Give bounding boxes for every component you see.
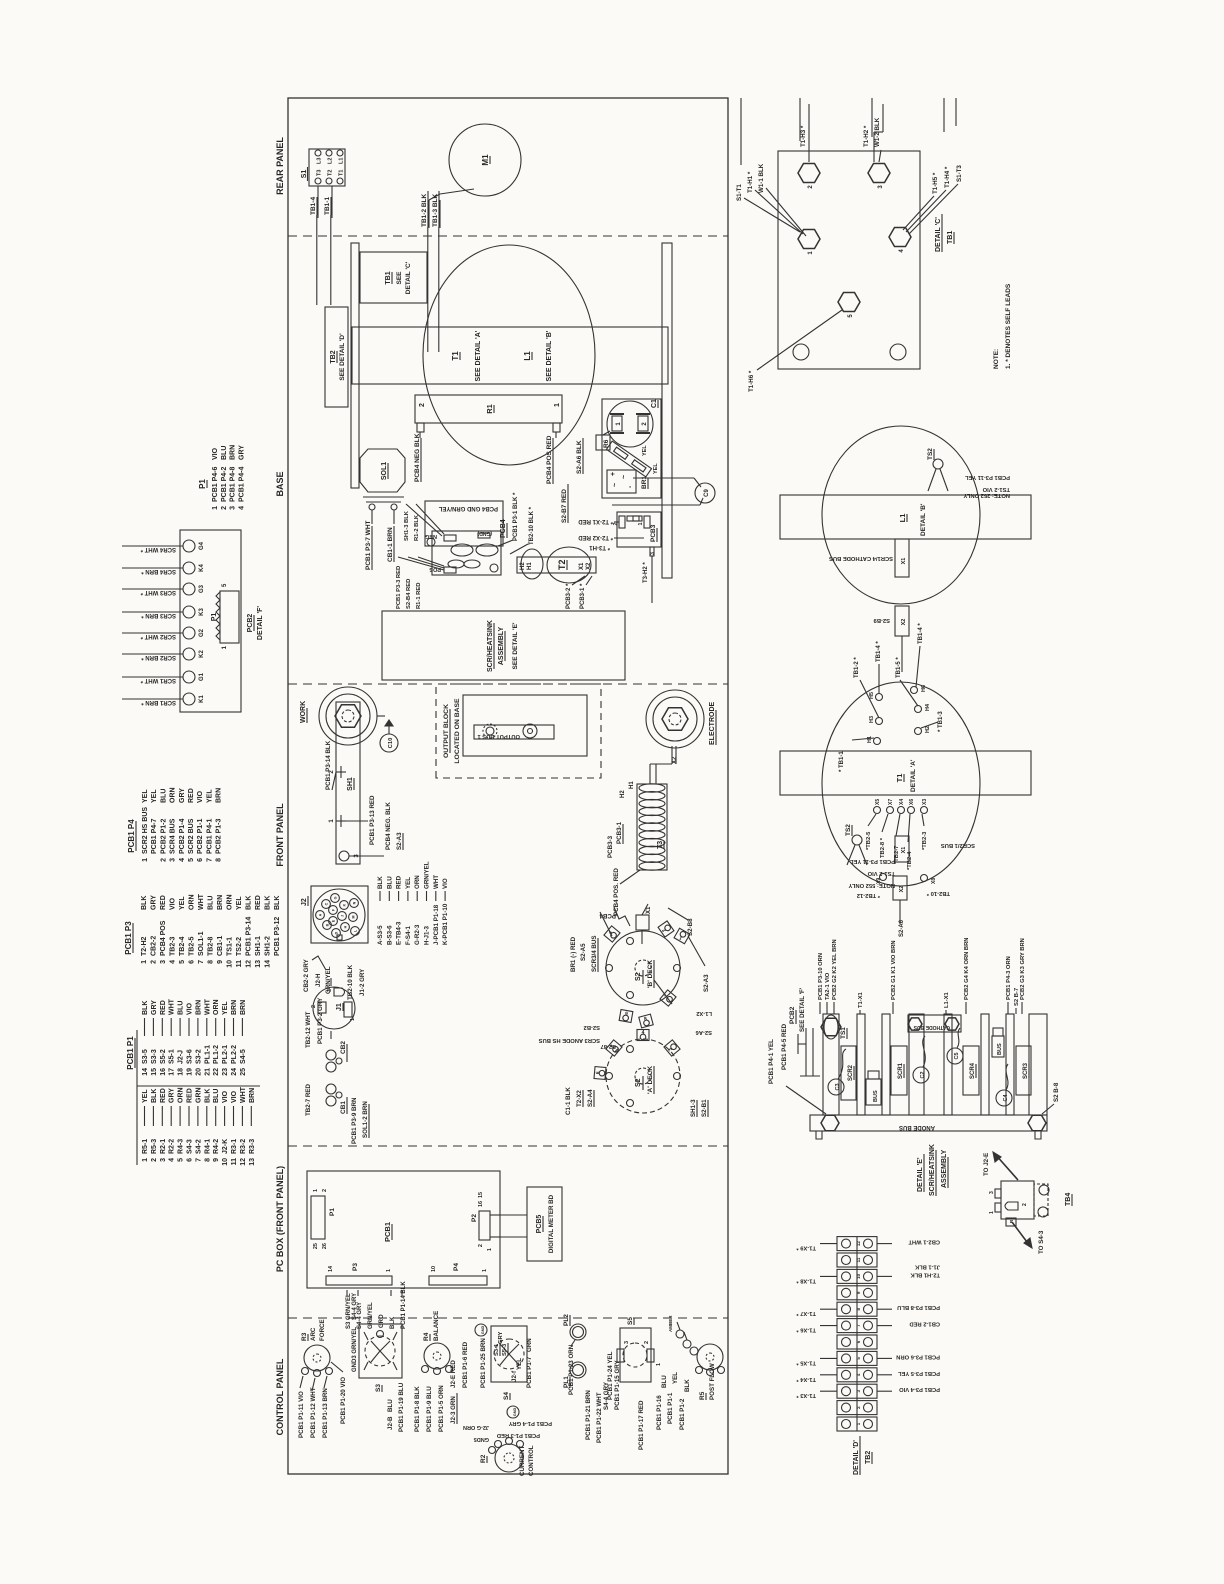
svg-text:NOTE:: NOTE: <box>993 349 1000 369</box>
svg-text:10: 10 <box>222 1158 229 1166</box>
svg-text:G-R2-3: G-R2-3 <box>414 924 421 945</box>
svg-text:J2-E RED: J2-E RED <box>450 1360 457 1388</box>
T1 detail X labels <box>866 814 928 870</box>
svg-text:T3-H2 *: T3-H2 * <box>643 562 649 583</box>
terminal block TB1 detail C <box>778 151 920 369</box>
connector PCB2 detail F <box>122 530 264 712</box>
svg-text:RED: RED <box>396 875 403 889</box>
T1 detail H terminals <box>867 685 931 745</box>
label PCB1 P3-3 RED <box>396 557 444 609</box>
label SH1-3 <box>690 1099 708 1117</box>
svg-text:BLU: BLU <box>208 896 215 910</box>
svg-text:PCB2 P1-1: PCB2 P1-1 <box>197 818 204 854</box>
svg-text:RED: RED <box>187 1088 194 1103</box>
svg-text:CB1-2 RED: CB1-2 RED <box>909 1321 940 1327</box>
svg-text:YEL: YEL <box>142 1089 149 1103</box>
svg-text:CURRENT: CURRENT <box>519 1446 526 1476</box>
svg-text:PCB3-1: PCB3-1 <box>616 821 623 844</box>
svg-text:1: 1 <box>656 1363 662 1366</box>
svg-text:TB1-4 *: TB1-4 * <box>918 623 924 644</box>
svg-text:PC BOX (FRONT PANEL): PC BOX (FRONT PANEL) <box>275 1166 285 1272</box>
svg-text:18: 18 <box>178 1068 185 1076</box>
svg-text:CB2: CB2 <box>340 1041 347 1054</box>
svg-text:PCB1 P1-25 BRN: PCB1 P1-25 BRN <box>480 1338 487 1388</box>
svg-text:ELECTRODE: ELECTRODE <box>709 702 716 746</box>
resistor R6 <box>603 439 659 477</box>
svg-text:BLU: BLU <box>213 1089 220 1103</box>
svg-text:S3-5: S3-5 <box>142 1049 149 1064</box>
svg-text:23: 23 <box>222 1068 229 1076</box>
svg-text:T1-H4 *: T1-H4 * <box>944 166 951 188</box>
resistor R1 <box>415 395 562 438</box>
svg-text:YEL: YEL <box>222 1001 229 1015</box>
terminal block TB2 base <box>325 307 348 407</box>
svg-text:S2-B9: S2-B9 <box>873 617 890 623</box>
svg-text:X1: X1 <box>646 906 652 914</box>
svg-text:20: 20 <box>195 1068 202 1076</box>
svg-text:2: 2 <box>478 1244 484 1247</box>
svg-text:2: 2 <box>151 1158 158 1162</box>
svg-text:4: 4 <box>169 1158 176 1162</box>
svg-text:2: 2 <box>322 1189 328 1192</box>
svg-text:S5: S5 <box>627 1317 634 1325</box>
pcb PCB3 <box>613 512 661 603</box>
svg-text:S3: S3 <box>375 1384 382 1392</box>
svg-text:PCB4 POS RED: PCB4 POS RED <box>546 435 553 484</box>
svg-text:1: 1 <box>142 858 149 862</box>
label PCB1 P3-7 WHT <box>365 520 372 570</box>
breaker CB2 <box>305 997 347 1072</box>
svg-text:CB1: CB1 <box>340 1101 347 1114</box>
svg-text:C3: C3 <box>835 1083 841 1090</box>
svg-text:SH1-2: SH1-2 <box>265 936 272 956</box>
svg-text:CB2-1 WHT: CB2-1 WHT <box>908 1239 940 1245</box>
svg-text:TO S4-3: TO S4-3 <box>1038 1230 1045 1254</box>
svg-text:BLU: BLU <box>661 1375 668 1388</box>
svg-text:C5: C5 <box>954 1052 960 1059</box>
svg-text:S2-A6 BLK: S2-A6 BLK <box>576 440 583 474</box>
svg-text:SEE: SEE <box>396 271 403 285</box>
svg-text:C9: C9 <box>704 489 710 497</box>
svg-text:BASE: BASE <box>275 471 285 496</box>
label T1-H6 <box>748 310 842 392</box>
svg-text:GND5: GND5 <box>474 1436 489 1442</box>
inductor L1 detail B <box>780 426 1031 604</box>
svg-text:16: 16 <box>160 1068 167 1076</box>
svg-text:PCB1 P3-3 RED: PCB1 P3-3 RED <box>396 566 402 609</box>
svg-text:PCB2 P1-4: PCB2 P1-4 <box>179 818 186 854</box>
svg-text:P3: P3 <box>352 1263 359 1271</box>
capacitor C10 <box>377 716 398 752</box>
svg-text:SCR2 BRN *: SCR2 BRN * <box>141 654 176 660</box>
svg-text:J1-2 GRY: J1-2 GRY <box>359 968 366 996</box>
svg-text:GRN: GRN <box>526 1338 533 1352</box>
svg-text:H5: H5 <box>869 692 875 699</box>
label TB1-2 BLK <box>421 191 428 352</box>
label BR1 wires <box>570 936 598 972</box>
wire table PCB1 P3 <box>124 893 281 967</box>
svg-text:BRN: BRN <box>216 788 223 803</box>
svg-text:6: 6 <box>189 960 196 964</box>
svg-text:21: 21 <box>204 1068 211 1076</box>
terminal X1 T3 <box>636 904 649 944</box>
svg-text:H2: H2 <box>520 562 526 570</box>
svg-text:G2: G2 <box>199 628 205 637</box>
label PCB1 P3-14 BLK <box>325 740 336 790</box>
svg-text:CB2-2 GRY: CB2-2 GRY <box>303 958 310 992</box>
svg-text:BLK: BLK <box>265 896 272 910</box>
wire table PCB1 P4 <box>127 787 223 861</box>
svg-text:OUTPUT BUS 1: OUTPUT BUS 1 <box>477 733 520 739</box>
svg-text:BRN: BRN <box>195 1000 202 1015</box>
svg-text:R5-3: R5-3 <box>151 1139 158 1154</box>
svg-text:T1: T1 <box>339 170 345 176</box>
svg-text:POST FLOW: POST FLOW <box>709 1363 716 1400</box>
svg-text:SH1-3: SH1-3 <box>690 1099 697 1117</box>
svg-text:X2: X2 <box>586 562 592 570</box>
svg-text:PCB1 P3-13 RED: PCB1 P3-13 RED <box>369 795 376 845</box>
rectifier BR1 <box>607 470 648 493</box>
svg-text:C1: C1 <box>651 399 658 408</box>
wire M1 leads <box>429 189 474 228</box>
svg-text:PCB1 P4: PCB1 P4 <box>127 819 136 853</box>
svg-text:PCB2 P1-3: PCB2 P1-3 <box>216 818 223 854</box>
svg-text:PCB4: PCB4 <box>599 912 616 919</box>
svg-text:TB1: TB1 <box>947 231 954 244</box>
svg-text:10: 10 <box>227 960 234 968</box>
svg-text:L1-X1: L1-X1 <box>944 991 950 1008</box>
label S4 wires <box>450 1332 533 1388</box>
label R4 wires <box>414 1385 457 1432</box>
svg-text:14: 14 <box>142 1068 149 1076</box>
svg-text:RED: RED <box>160 1088 167 1103</box>
svg-text:SCR3 BRN *: SCR3 BRN * <box>141 612 176 618</box>
svg-text:BLK: BLK <box>142 1001 149 1015</box>
svg-text:PCB3-1 *: PCB3-1 * <box>580 583 586 609</box>
label S2-A3 <box>600 912 710 1004</box>
svg-text:PCB1 P1-15 GRY: PCB1 P1-15 GRY <box>614 1359 621 1410</box>
thermostat TS2 T1 <box>845 824 895 888</box>
svg-text:S5-2: S5-2 <box>160 1049 167 1064</box>
svg-text:BLK: BLK <box>390 1316 396 1329</box>
svg-text:14: 14 <box>328 1265 334 1272</box>
svg-text:3: 3 <box>230 506 237 510</box>
svg-text:YEL: YEL <box>653 463 659 474</box>
label PCB1 P3-1 BLK <box>498 492 535 554</box>
svg-text:SCR2 BUS: SCR2 BUS <box>188 818 195 854</box>
svg-text:2: 2 <box>419 403 426 407</box>
svg-text:P4: P4 <box>453 1263 460 1271</box>
svg-text:TB2: TB2 <box>865 1451 872 1464</box>
svg-text:TB1-4 *: TB1-4 * <box>876 641 882 662</box>
svg-text:SCR4 BUS: SCR4 BUS <box>170 818 177 854</box>
svg-text:K-PCB1 P1-10: K-PCB1 P1-10 <box>442 903 449 945</box>
svg-text:T1-X1: T1-X1 <box>858 991 864 1008</box>
label PCB4 NEG S2-A3 <box>349 802 403 856</box>
svg-text:1: 1 <box>989 1211 995 1214</box>
svg-text:DETAIL 'C': DETAIL 'C' <box>935 217 942 252</box>
svg-text:* TB1-3: * TB1-3 <box>938 711 944 732</box>
capacitor C3 detail E <box>828 1049 846 1095</box>
svg-text:R3-2: R3-2 <box>240 1139 247 1154</box>
svg-text:R6: R6 <box>603 439 610 448</box>
transformer T1/L1 band <box>352 327 668 384</box>
svg-text:S2-B4 RED: S2-B4 RED <box>406 579 412 609</box>
label PCB4 NEG BLK <box>414 433 421 482</box>
svg-text:BALANCE: BALANCE <box>433 1311 440 1341</box>
svg-text:CB2-2: CB2-2 <box>151 936 158 956</box>
svg-text:ORN: ORN <box>414 875 421 889</box>
svg-text:S2-B1: S2-B1 <box>701 1099 708 1117</box>
svg-text:PL2-1: PL2-1 <box>222 1045 229 1064</box>
svg-text:2: 2 <box>221 506 228 510</box>
svg-text:G4: G4 <box>199 541 205 550</box>
svg-text:NOTE: 252 ONLY: NOTE: 252 ONLY <box>963 492 1010 498</box>
svg-text:PCB1 P4-4: PCB1 P4-4 <box>238 466 245 502</box>
svg-text:ORN: ORN <box>227 894 234 910</box>
svg-text:TS1: TS1 <box>840 1027 847 1039</box>
svg-text:24: 24 <box>231 1068 238 1076</box>
svg-text:11: 11 <box>231 1158 238 1166</box>
svg-text:1: 1 <box>313 1189 319 1192</box>
TB4 arrow to S4-3 <box>1012 1222 1045 1254</box>
svg-text:PCB1 P1-9 BLU: PCB1 P1-9 BLU <box>426 1386 433 1432</box>
label S1-T1 T1-H1 W1-1 <box>736 163 806 236</box>
svg-text:TB1: TB1 <box>385 271 392 284</box>
svg-text:TB2: TB2 <box>330 350 337 363</box>
svg-text:G1: G1 <box>199 672 205 681</box>
svg-text:SEE DETAIL 'D': SEE DETAIL 'D' <box>339 333 346 381</box>
svg-text:SH1: SH1 <box>347 777 354 791</box>
svg-text:X1: X1 <box>579 562 585 570</box>
svg-text:R1: R1 <box>485 404 494 414</box>
svg-text:TB4: TB4 <box>1065 1193 1072 1206</box>
svg-text:PCB1 P1-21 BRN: PCB1 P1-21 BRN <box>585 1390 592 1440</box>
svg-text:T1-H5 *: T1-H5 * <box>932 172 939 194</box>
svg-text:SEE DETAIL 'B': SEE DETAIL 'B' <box>546 330 553 381</box>
svg-text:25: 25 <box>240 1068 247 1076</box>
svg-text:5: 5 <box>188 858 195 862</box>
svg-text:PCB1 P3-8 BLU: PCB1 P3-8 BLU <box>897 1304 940 1310</box>
svg-text:G3: G3 <box>199 584 205 593</box>
svg-text:15: 15 <box>478 1192 484 1198</box>
jack symbols R5 <box>668 1315 698 1355</box>
svg-text:*TB2-5: *TB2-5 <box>866 831 872 850</box>
scr SCR2 <box>841 1046 856 1100</box>
svg-text:S2-87: S2-87 <box>601 1043 616 1049</box>
svg-text:14: 14 <box>265 960 272 968</box>
svg-text:L1: L1 <box>898 514 907 523</box>
svg-text:A: A <box>319 913 323 916</box>
svg-text:BRN: BRN <box>249 1088 256 1103</box>
svg-text:PCB4 GND GRN/YEL: PCB4 GND GRN/YEL <box>438 505 498 511</box>
svg-text:VIO: VIO <box>222 1090 229 1103</box>
svg-text:PL1-1: PL1-1 <box>204 1045 211 1064</box>
svg-text:T1: T1 <box>451 351 460 361</box>
svg-text:C2: C2 <box>920 1071 926 1078</box>
svg-text:PCB1: PCB1 <box>383 1222 392 1242</box>
svg-text:T1-H3 *: T1-H3 * <box>800 125 807 147</box>
svg-text:26: 26 <box>322 1243 328 1249</box>
svg-text:R5-1: R5-1 <box>142 1139 149 1154</box>
svg-text:J2: J2 <box>301 898 308 906</box>
label PCB4 POS RED <box>546 435 553 484</box>
svg-text:YEL: YEL <box>206 789 213 803</box>
svg-text:GRY: GRY <box>151 1000 158 1015</box>
svg-text:TS1-2 VIO: TS1-2 VIO <box>982 486 1010 492</box>
svg-text:8: 8 <box>216 858 223 862</box>
svg-text:N: N <box>353 901 357 904</box>
svg-text:T1-X8 *: T1-X8 * <box>796 1277 816 1283</box>
svg-text:X6: X6 <box>909 799 915 805</box>
svg-text:J2-B: J2-B <box>387 1416 394 1430</box>
pcb PCB4 <box>425 501 507 575</box>
svg-text:S4-5: S4-5 <box>240 1049 247 1064</box>
terminal X1 L1 <box>829 539 909 577</box>
svg-text:11: 11 <box>236 960 243 968</box>
svg-text:GND: GND <box>513 1408 517 1417</box>
svg-text:1: 1 <box>638 522 644 525</box>
svg-text:X2: X2 <box>672 756 678 764</box>
wire S1 to TB1-1 <box>324 186 332 305</box>
svg-text:4: 4 <box>238 506 245 510</box>
svg-text:H2: H2 <box>925 726 931 733</box>
svg-text:S5-1: S5-1 <box>169 1049 176 1064</box>
svg-text:7: 7 <box>206 858 213 862</box>
svg-text:PCB1 P3-7 WHT: PCB1 P3-7 WHT <box>365 520 372 570</box>
svg-text:BLK: BLK <box>151 1089 158 1103</box>
scr SCR3 <box>1016 1046 1031 1095</box>
svg-text:YEL: YEL <box>516 1358 523 1370</box>
svg-text:GRY: GRY <box>169 1088 176 1103</box>
svg-text:4: 4 <box>179 858 186 862</box>
section label REAR PANEL <box>275 137 285 195</box>
svg-text:12: 12 <box>240 1158 247 1166</box>
potentiometer R2 <box>480 1438 535 1477</box>
svg-text:T1-X6 *: T1-X6 * <box>796 1327 816 1333</box>
svg-text:C: C <box>325 902 329 905</box>
svg-text:7: 7 <box>198 960 205 964</box>
label PCB1 P4-1 <box>768 1023 826 1114</box>
svg-text:9: 9 <box>217 960 224 964</box>
svg-text:R5: R5 <box>699 1391 706 1400</box>
thermostat TS2 L1 <box>927 448 1010 498</box>
pcb PCB5 digital meter <box>490 1187 562 1261</box>
transformer T2 <box>517 547 596 609</box>
svg-text:R4-3: R4-3 <box>178 1139 185 1154</box>
svg-text:LOCATED ON BASE: LOCATED ON BASE <box>454 698 461 764</box>
connector J2 <box>301 886 368 943</box>
legend J2 wires <box>377 861 449 945</box>
svg-text:S3-2: S3-2 <box>195 1049 202 1064</box>
svg-text:TB1-2 BLK: TB1-2 BLK <box>421 193 428 227</box>
terminal block TB4 <box>989 1181 1049 1226</box>
svg-text:PCB1 P3-12: PCB1 P3-12 <box>274 917 281 956</box>
svg-text:* T2-X2 RED: * T2-X2 RED <box>578 534 613 540</box>
svg-text:CONTROL PANEL: CONTROL PANEL <box>275 1358 285 1435</box>
svg-text:S3-6: S3-6 <box>187 1049 194 1064</box>
svg-text:PCB1 P4-1 YEL: PCB1 P4-1 YEL <box>768 1039 775 1084</box>
svg-text:PCB2 G3 K3 GRY BRN: PCB2 G3 K3 GRY BRN <box>1020 938 1026 1000</box>
svg-text:TB1-4: TB1-4 <box>310 197 317 215</box>
svg-text:T2-H2: T2-H2 <box>141 936 148 956</box>
svg-text:PCB1 P4-6: PCB1 P4-6 <box>212 466 219 502</box>
svg-text:K2: K2 <box>199 650 205 658</box>
svg-text:PCB1 P3-10 ORN: PCB1 P3-10 ORN <box>818 953 824 1000</box>
svg-text:1: 1 <box>212 506 219 510</box>
svg-text:YEL: YEL <box>142 789 149 803</box>
svg-text:BLK: BLK <box>274 896 281 910</box>
svg-text:ORN: ORN <box>213 999 220 1015</box>
svg-text:3: 3 <box>989 1191 995 1194</box>
svg-text:PCB2 G1 K1 VIO BRN: PCB2 G1 K1 VIO BRN <box>891 940 897 1000</box>
svg-text:BRN: BRN <box>240 1000 247 1015</box>
svg-text:SEE DETAIL 'F': SEE DETAIL 'F' <box>799 987 806 1032</box>
section label BASE <box>275 471 285 496</box>
svg-text:* T2-X1 RED: * T2-X1 RED <box>578 518 613 524</box>
shunt SH1 <box>329 702 360 864</box>
label S3 wires <box>352 1293 405 1432</box>
svg-text:J-PCB1 P1-18: J-PCB1 P1-18 <box>433 904 440 945</box>
detail E title <box>917 1144 948 1196</box>
svg-text:SCR4 WHT *: SCR4 WHT * <box>140 546 176 552</box>
wire table P1 <box>198 445 245 510</box>
svg-text:M1: M1 <box>481 154 490 166</box>
svg-text:22: 22 <box>213 1068 220 1076</box>
section divider PCBOX/CONTROL <box>288 1317 728 1319</box>
svg-text:VIO: VIO <box>442 878 449 889</box>
svg-text:* TB2-12: * TB2-12 <box>857 892 880 898</box>
svg-text:TB2-8 *: TB2-8 * <box>880 837 886 858</box>
svg-text:C10: C10 <box>388 738 394 749</box>
svg-text:PCB1 P1: PCB1 P1 <box>126 1036 135 1070</box>
svg-text:S2-B7 RED: S2-B7 RED <box>561 489 568 523</box>
capacitor C5 detail E <box>947 1028 963 1064</box>
TB2 detail D top labels <box>796 1244 837 1399</box>
inductor T3 <box>620 746 678 914</box>
svg-text:X4: X4 <box>899 799 905 805</box>
svg-text:T1-X4 *: T1-X4 * <box>796 1376 816 1382</box>
svg-text:PCB1 P3-14: PCB1 P3-14 <box>246 917 253 956</box>
svg-text:S2-B2: S2-B2 <box>584 1024 600 1030</box>
svg-text:5: 5 <box>179 960 186 964</box>
svg-text:VIO: VIO <box>212 447 219 460</box>
svg-text:PCB1 P1-5 ORN: PCB1 P1-5 ORN <box>438 1385 445 1432</box>
svg-text:L3: L3 <box>317 158 323 164</box>
terminal X2 L1 <box>873 606 909 672</box>
capacitor box <box>602 399 661 498</box>
svg-text:PL1: PL1 <box>563 1376 570 1388</box>
svg-text:PCB2: PCB2 <box>247 614 254 633</box>
note self leads <box>993 283 1012 369</box>
svg-text:SCR3 WHT *: SCR3 WHT * <box>140 589 176 595</box>
svg-text:DETAIL 'D': DETAIL 'D' <box>853 1440 860 1475</box>
svg-text:(GND): (GND) <box>477 530 492 536</box>
svg-text:TB2-5: TB2-5 <box>189 936 196 956</box>
svg-text:R2-2: R2-2 <box>169 1139 176 1154</box>
switch S5 <box>617 1317 662 1382</box>
svg-text:BRN: BRN <box>231 1000 238 1015</box>
svg-text:RED: RED <box>160 1000 167 1015</box>
svg-text:TB2-4: TB2-4 <box>179 936 186 956</box>
work stud <box>300 687 377 745</box>
svg-text:J2-J: J2-J <box>178 1050 185 1064</box>
svg-text:J2-f: J2-f <box>511 1370 518 1382</box>
svg-text:13: 13 <box>255 960 262 968</box>
svg-text:S2-A6: S2-A6 <box>695 1029 712 1035</box>
svg-text:VIO: VIO <box>197 790 204 803</box>
svg-text:S2-B8: S2-B8 <box>687 918 694 936</box>
